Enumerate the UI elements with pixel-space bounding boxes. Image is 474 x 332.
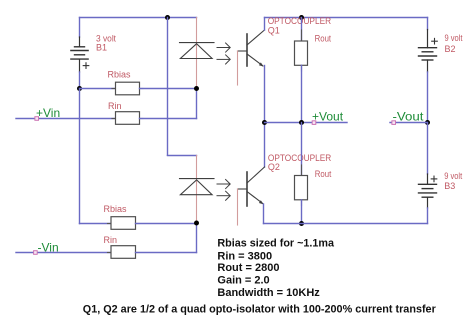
- transistor Q1: [238, 30, 265, 67]
- svg-text:Rbias: Rbias: [104, 204, 128, 214]
- junction: LED1 / Rbias1 / Rin1 node: [194, 86, 199, 91]
- wire: top-right rail: [265, 17, 428, 19]
- svg-text:Rout: Rout: [315, 169, 332, 179]
- svg-text:+Vout: +Vout: [312, 110, 344, 124]
- wire: Rin1 node riser: [196, 89, 198, 119]
- junction: bottom rail / Rout2: [299, 221, 304, 226]
- wire: B3 bottom lead: [427, 208, 429, 224]
- resistor Rbias2 lead stubs: [108, 223, 112, 225]
- resistor Rbias1 lead stubs: [112, 88, 116, 90]
- pin square: +Vout: [312, 121, 316, 125]
- resistor Rbias2: [111, 217, 136, 230]
- wire: Q1 base lead (pink, open): [237, 51, 239, 85]
- svg-text:Rbias sized for ~1.1ma: Rbias sized for ~1.1ma: [217, 237, 334, 249]
- svg-text:+Vin: +Vin: [36, 106, 60, 120]
- wire: bottom rail: [264, 223, 428, 225]
- resistor Rbias1: [116, 82, 140, 95]
- junction: top rail / LED2 branch: [165, 15, 170, 20]
- junction: right rail / Rout1: [299, 15, 304, 20]
- wire: Rbias1 right: [140, 88, 197, 90]
- transistor Q2: [238, 167, 265, 206]
- wire: B2 bottom lead: [427, 72, 429, 123]
- junction: LED2 / Rbias2 / Rin2 node: [194, 221, 199, 226]
- wire: Q1 collector riser: [264, 18, 266, 31]
- wire: Q1 emitter / Q2 collector riser: [264, 66, 266, 168]
- wire: Rout1 bottom lead: [301, 65, 303, 122]
- wire: Q2 base lead (pink, open): [237, 189, 239, 225]
- battery B3: [419, 174, 437, 208]
- resistor Rin2 lead stubs: [108, 252, 112, 254]
- wire: B3 top lead: [427, 123, 429, 175]
- wire: Rout2 bottom lead: [301, 200, 303, 224]
- battery B1: [71, 37, 89, 72]
- svg-text:-Vout: -Vout: [393, 110, 425, 124]
- wire: +Vout line: [265, 122, 348, 124]
- wire: Rbias1 left: [80, 88, 116, 90]
- svg-text:Rin = 3800: Rin = 3800: [217, 251, 272, 263]
- wire: Rin2 node riser: [196, 224, 198, 253]
- svg-text:9 volt: 9 volt: [444, 171, 462, 181]
- svg-text:B1: B1: [96, 42, 107, 52]
- wire: Rout1 top lead: [301, 18, 303, 42]
- svg-text:B3: B3: [444, 181, 455, 191]
- wire: LED2 branch vertical: [167, 18, 169, 156]
- wire: Rin1 right: [140, 118, 197, 120]
- svg-text:9 volt: 9 volt: [445, 33, 463, 43]
- light arrows D1: [217, 43, 230, 64]
- wire: top-left rail: [80, 17, 197, 19]
- LED D1: [180, 43, 215, 59]
- wire: Rin2 right: [136, 252, 197, 254]
- wire: B1 bottom lead: [79, 72, 81, 89]
- wire: B1 top lead: [79, 18, 81, 38]
- svg-text:B2: B2: [445, 44, 456, 54]
- resistor Rout1 lead stubs: [301, 30, 303, 41]
- wire: bias bus vertical: [79, 89, 81, 224]
- wire: LED D2 vertical (pink): [196, 156, 198, 224]
- svg-text:Q1: Q1: [268, 25, 280, 35]
- resistor Rout1: [295, 41, 308, 65]
- resistor Rin1 lead stubs: [112, 118, 116, 120]
- wire: +Vin line: [16, 118, 116, 120]
- wire: Rout2 top lead: [301, 123, 303, 176]
- svg-text:Rin: Rin: [104, 235, 118, 245]
- junction: +Vout / Q1 emitter: [262, 120, 267, 125]
- pin square: -Vout: [392, 121, 396, 125]
- resistor Rout2 lead stubs: [301, 165, 303, 176]
- junction: -Vout / B2 / B3: [425, 120, 430, 125]
- junction: +Vout / Rout1 / Rout2: [299, 120, 304, 125]
- LED D2: [180, 179, 215, 195]
- svg-text:Q2: Q2: [268, 162, 280, 172]
- svg-text:Rout: Rout: [315, 34, 332, 44]
- wire: B2 top lead: [427, 18, 429, 30]
- svg-text:Rout = 2800: Rout = 2800: [217, 262, 279, 274]
- svg-text:Q1, Q2 are 1/2 of a quad opto-: Q1, Q2 are 1/2 of a quad opto-isolator w…: [83, 304, 437, 316]
- svg-text:Rbias: Rbias: [108, 70, 132, 80]
- light arrows D2: [217, 180, 230, 201]
- junction: B1 / Rbias node: [77, 86, 82, 91]
- wire: Rbias2 left: [80, 223, 112, 225]
- wire: -Vout line: [390, 122, 428, 124]
- wire: LED D1 anode/cathode (pink): [196, 18, 198, 89]
- wire: LED2 branch horizontal: [168, 155, 197, 157]
- wire: Q2 emitter drop: [263, 204, 265, 224]
- resistor Rin2: [111, 246, 136, 259]
- pin square: -Vin: [34, 251, 38, 255]
- wire: -Vin line: [16, 252, 111, 254]
- svg-text:Rin: Rin: [108, 101, 122, 111]
- resistor Rout2: [295, 176, 308, 200]
- svg-text:Gain = 2.0: Gain = 2.0: [217, 275, 269, 287]
- battery B2: [419, 30, 438, 73]
- svg-text:Bandwidth = 10KHz: Bandwidth = 10KHz: [217, 287, 320, 299]
- resistor Rin1: [116, 112, 140, 125]
- svg-text:-Vin: -Vin: [38, 240, 59, 254]
- pin square: +Vin: [35, 117, 39, 121]
- wire: Rbias2 right: [136, 223, 197, 225]
